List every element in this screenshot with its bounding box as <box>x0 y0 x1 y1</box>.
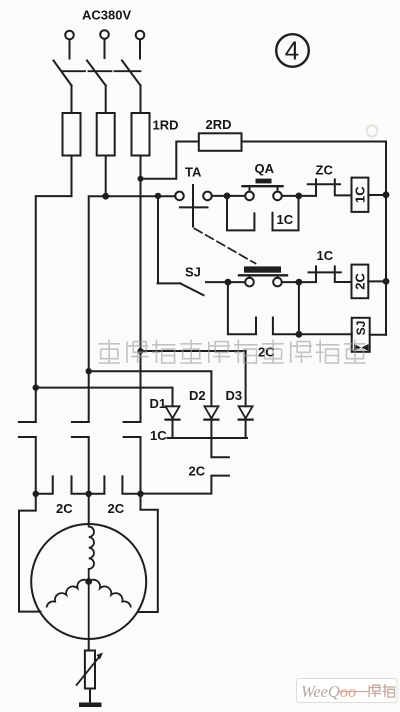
svg-text:2C: 2C <box>56 501 73 516</box>
svg-text:1C: 1C <box>317 248 334 263</box>
svg-text:D3: D3 <box>226 388 243 403</box>
svg-text:2C: 2C <box>189 464 206 479</box>
svg-text:ZC: ZC <box>316 163 334 178</box>
svg-text:1C: 1C <box>353 186 368 203</box>
svg-text:1C: 1C <box>277 212 294 227</box>
svg-text:2C: 2C <box>108 501 125 516</box>
svg-text:4: 4 <box>285 36 299 66</box>
svg-text:SJ: SJ <box>354 321 368 336</box>
svg-text:QA: QA <box>255 161 275 176</box>
svg-text:AC380V: AC380V <box>82 8 131 23</box>
svg-text:1C: 1C <box>150 428 167 443</box>
svg-text:SJ: SJ <box>185 265 201 280</box>
svg-text:D1: D1 <box>150 396 167 411</box>
svg-text:D2: D2 <box>189 388 206 403</box>
svg-text:2RD: 2RD <box>206 117 232 132</box>
svg-text:1RD: 1RD <box>153 118 179 133</box>
svg-text:TA: TA <box>185 165 202 180</box>
svg-text:2C: 2C <box>352 272 367 289</box>
